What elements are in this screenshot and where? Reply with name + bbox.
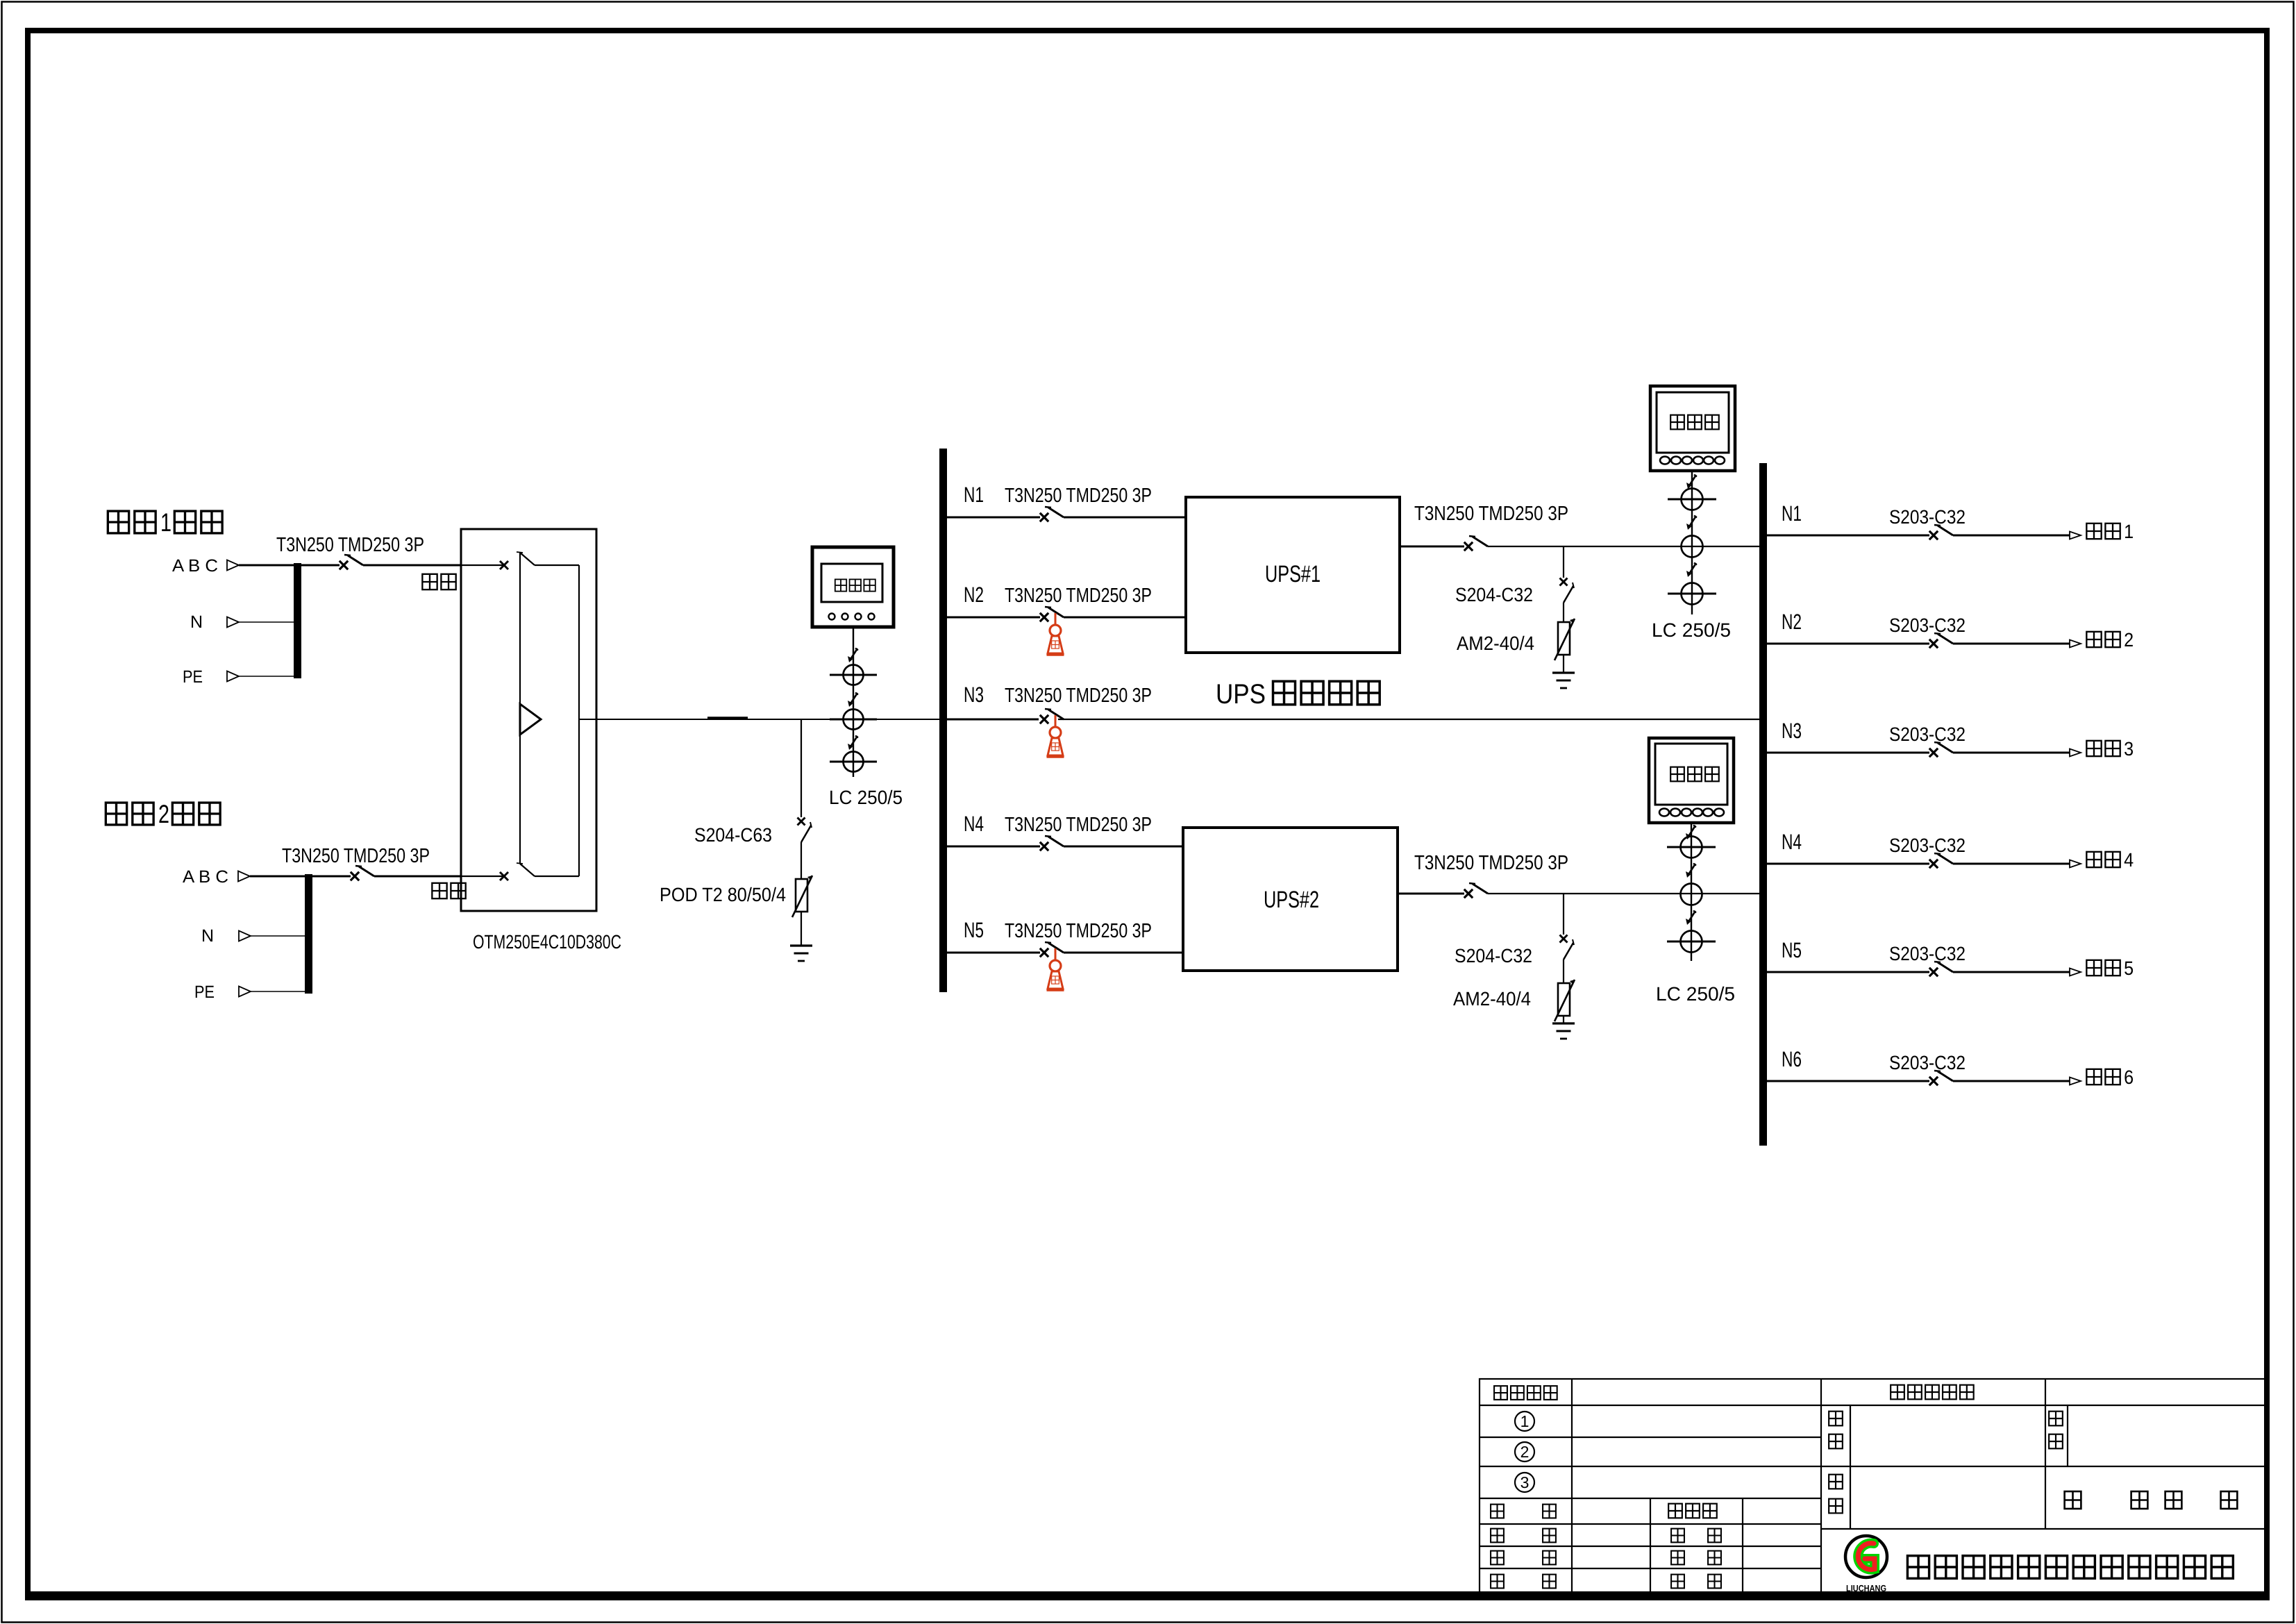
svg-text:UPS#2: UPS#2	[1264, 887, 1319, 913]
wire UPS#1 output	[1400, 546, 1464, 548]
breaker S204-C63	[798, 818, 805, 826]
wire circuit N5 from bus B2	[1767, 971, 1929, 973]
svg-text:S203-C32: S203-C32	[1889, 943, 1966, 964]
wire N2in	[251, 935, 305, 937]
CT LC 250/5 phase A (left)	[844, 665, 864, 685]
label 编码	[1829, 1475, 1843, 1489]
bolt mark m2b	[1689, 516, 1696, 528]
svg-text:N3: N3	[964, 683, 984, 707]
label circled 3	[1515, 1473, 1534, 1492]
CT LC 250/5 phase C (left)	[844, 752, 864, 772]
wire SPD3 drop	[1563, 894, 1564, 935]
svg-text:T3N250 TMD250 3P: T3N250 TMD250 3P	[1005, 585, 1152, 607]
arrow output N4	[2070, 860, 2081, 868]
surge arrester AM2-40/4 (upper)	[1558, 622, 1570, 655]
wire meter P2 drop	[1691, 471, 1693, 614]
bolt mark m3a	[1688, 826, 1695, 837]
svg-text:LC 250/5: LC 250/5	[1656, 983, 1735, 1005]
CT LC 250/5 A (upper right)	[1682, 489, 1703, 510]
wire branch N4 from bus B1	[947, 846, 1040, 848]
wire circuit N2 from bus B2	[1767, 643, 1929, 645]
bolt mark m3c	[1688, 911, 1695, 923]
breaker N3 bypass	[1040, 715, 1048, 723]
padlock seal on breaker N2	[1055, 613, 1057, 625]
junction dash on main line	[707, 717, 748, 720]
bolt mark m1a	[850, 648, 857, 660]
wire SPD3 mid	[1563, 960, 1564, 983]
ATS U1 normal-side switch 常用	[461, 564, 504, 566]
label 回路1	[2086, 524, 2101, 539]
svg-text:LC 250/5: LC 250/5	[1652, 619, 1731, 641]
svg-text:1: 1	[160, 508, 171, 537]
svg-text:AM2-40/4: AM2-40/4	[1457, 633, 1534, 654]
label 第 张 共 张	[2065, 1491, 2081, 1509]
wire UPS#2 output	[1398, 893, 1464, 895]
ATS U1 standby-side switch 备用	[461, 876, 504, 877]
wire circuit N6 to load	[1953, 1080, 2070, 1082]
wire SPD1 drop	[801, 719, 802, 817]
svg-text:N6: N6	[1782, 1047, 1802, 1071]
label 标准化	[1668, 1504, 1682, 1518]
breaker S204-C32 (upper)	[1560, 578, 1568, 586]
UPS U2 box UPS#1	[1186, 497, 1400, 653]
svg-text:S203-C32: S203-C32	[1889, 506, 1966, 528]
svg-text:S203-C32: S203-C32	[1889, 723, 1966, 745]
svg-text:OTM250E4C10D380C: OTM250E4C10D380C	[473, 931, 621, 953]
wire PE1in	[239, 676, 294, 677]
wire UPS#1 output to bus B2	[1488, 546, 1759, 547]
svg-text:N2: N2	[964, 583, 984, 607]
label 回路3	[2086, 741, 2101, 756]
label 批准	[1671, 1551, 1684, 1565]
busbar B1 (UPS input bus)	[939, 449, 947, 992]
svg-text:T3N250 TMD250 3P: T3N250 TMD250 3P	[1414, 503, 1568, 525]
CT LC 250/5 B (upper right)	[1682, 536, 1703, 558]
breaker S204-C32 (lower)	[1560, 935, 1568, 943]
arrow output N6	[2070, 1078, 2081, 1085]
label 数量	[2049, 1412, 2063, 1426]
wire branch N2 from bus B1	[947, 617, 1040, 619]
wire ABC2 to busbar	[250, 876, 351, 878]
label 设计	[1491, 1505, 1504, 1518]
meter P2 电量仪 box	[1650, 386, 1735, 471]
label 制图	[1491, 1529, 1504, 1543]
node 市电1接入 label	[108, 511, 128, 533]
wire branch N3 from bus B1	[947, 719, 1039, 721]
svg-text:2: 2	[2124, 629, 2134, 651]
svg-text:S203-C32: S203-C32	[1889, 614, 1966, 636]
ATS U1 box	[461, 529, 596, 911]
label 项目名称	[1494, 1386, 1507, 1400]
breaker QF2	[351, 872, 359, 880]
meter P1 电量仪 box	[812, 547, 894, 627]
busbar stub source 1	[294, 563, 301, 678]
busbar stub source 2	[305, 874, 312, 994]
CT LC 250/5 C (lower right)	[1681, 931, 1702, 953]
wire N1in	[239, 621, 294, 623]
svg-text:5: 5	[2124, 957, 2134, 979]
wire circuit N3 from bus B2	[1767, 752, 1929, 754]
svg-text:A B C: A B C	[183, 867, 228, 887]
svg-text:PE: PE	[194, 982, 215, 1002]
svg-text:3: 3	[1520, 1473, 1530, 1491]
CT LC 250/5 C (upper right)	[1682, 583, 1703, 605]
svg-text:2: 2	[158, 800, 169, 828]
label 石家庄流畅电子科技有限公司	[1907, 1556, 1929, 1579]
svg-text:N5: N5	[1782, 938, 1802, 962]
wire circuit N1 to load	[1953, 535, 2070, 537]
svg-text:PE: PE	[183, 667, 203, 687]
label 名称	[1829, 1412, 1843, 1426]
surge arrester POD T2 80/50/4	[796, 879, 807, 912]
bolt mark m2a	[1689, 475, 1696, 487]
wire SPD2 to ground	[1563, 655, 1564, 673]
arrow output N3	[2070, 749, 2081, 757]
svg-text:4: 4	[2124, 849, 2134, 871]
wire meter P3 drop	[1691, 823, 1692, 961]
label 回路4	[2086, 852, 2101, 867]
svg-text:1: 1	[1520, 1412, 1530, 1430]
label circled 2	[1515, 1442, 1534, 1462]
label 备用	[432, 883, 446, 898]
ATS U1 common conductor	[519, 553, 521, 864]
svg-text:POD T2 80/50/4: POD T2 80/50/4	[660, 884, 786, 905]
wire ABC1 to busbar	[239, 564, 340, 567]
svg-text:1: 1	[2124, 521, 2134, 542]
label 工艺	[1491, 1575, 1504, 1589]
arrow output N5	[2070, 969, 2081, 976]
svg-text:2: 2	[1520, 1443, 1530, 1461]
CT LC 250/5 phase B (left)	[844, 710, 864, 730]
arrow output N2	[2070, 640, 2081, 648]
wire circuit N1 from bus B2	[1767, 535, 1929, 537]
ground GND3	[1552, 1022, 1575, 1024]
wire branch N5 from bus B1	[947, 952, 1040, 954]
wire SPD2 drop	[1563, 546, 1564, 578]
wire SPD2 mid	[1563, 603, 1564, 622]
wire circuit N4 from bus B2	[1767, 863, 1929, 865]
svg-text:AM2-40/4: AM2-40/4	[1453, 988, 1531, 1010]
CT LC 250/5 B (lower right)	[1681, 884, 1702, 905]
wire QF2 to ATS	[374, 876, 461, 878]
svg-text:T3N250 TMD250 3P: T3N250 TMD250 3P	[1005, 685, 1152, 707]
CT LC 250/5 A (lower right)	[1681, 837, 1702, 858]
svg-text:N3: N3	[1782, 719, 1802, 743]
svg-text:T3N250 TMD250 3P: T3N250 TMD250 3P	[1005, 485, 1152, 507]
svg-text:S204-C63: S204-C63	[694, 824, 772, 846]
wire UPS#2 output to bus B2	[1488, 893, 1759, 894]
svg-text:6: 6	[2124, 1066, 2134, 1088]
wire circuit N5 to load	[1953, 971, 2070, 973]
svg-text:N5: N5	[964, 918, 984, 942]
wire circuit N3 to load	[1953, 752, 2070, 754]
svg-text:UPS#1: UPS#1	[1265, 561, 1321, 587]
bolt mark m2c	[1689, 563, 1696, 575]
svg-text:T3N250 TMD250 3P: T3N250 TMD250 3P	[282, 845, 430, 867]
svg-text:N: N	[201, 926, 214, 946]
bolt mark m3b	[1688, 864, 1695, 876]
wire SPD1 mid	[801, 842, 802, 879]
wire SPD1 to ground	[801, 912, 802, 946]
wire meter P1 drop	[853, 627, 854, 777]
svg-text:3: 3	[2124, 738, 2134, 760]
wire branch N4 to UPS	[1064, 846, 1183, 848]
svg-text:N: N	[190, 612, 203, 632]
padlock seal on breaker N5	[1055, 948, 1057, 960]
wire circuit N4 to load	[1953, 863, 2070, 865]
wire QF1 to ATS	[363, 564, 461, 567]
ATS U1 motor triangle	[520, 704, 541, 735]
svg-text:N2: N2	[1782, 610, 1802, 634]
label 配电柜尺寸	[1891, 1385, 1904, 1400]
label 校核	[1491, 1551, 1504, 1565]
wire branch N2 to UPS	[1064, 617, 1186, 619]
breaker QF1	[340, 561, 348, 569]
wire branch N1 to UPS	[1064, 517, 1186, 519]
svg-text:T3N250 TMD250 3P: T3N250 TMD250 3P	[1005, 920, 1152, 942]
svg-text:T3N250 TMD250 3P: T3N250 TMD250 3P	[276, 534, 424, 556]
node 市电2接入 label	[106, 803, 126, 825]
label 回路6	[2086, 1069, 2101, 1085]
svg-text:A B C: A B C	[172, 556, 218, 576]
svg-text:N1: N1	[1782, 501, 1802, 526]
label 回路5	[2086, 960, 2101, 976]
ground GND2	[1552, 671, 1575, 673]
wire main bypass segment	[1058, 719, 1759, 720]
svg-text:UPS: UPS	[1216, 679, 1266, 710]
svg-text:LIUCHANG: LIUCHANG	[1846, 1583, 1886, 1593]
label circled 1	[1515, 1412, 1534, 1431]
arrow output N1	[2070, 532, 2081, 539]
svg-text:LC 250/5: LC 250/5	[829, 787, 903, 808]
surge arrester AM2-40/4 (lower)	[1558, 983, 1570, 1016]
wire branch N5 to UPS	[1064, 952, 1183, 954]
label 回路2	[2086, 632, 2101, 647]
UPS U3 box UPS#2	[1183, 828, 1398, 971]
wire branch N1 from bus B1	[947, 517, 1040, 519]
svg-text:N4: N4	[1782, 830, 1802, 854]
logo LIUCHANG emblem	[1845, 1536, 1887, 1577]
meter P3 电量仪 box	[1649, 738, 1734, 823]
bolt mark m1b	[850, 693, 857, 705]
svg-text:T3N250 TMD250 3P: T3N250 TMD250 3P	[1005, 814, 1152, 836]
label 日期	[1671, 1575, 1684, 1589]
padlock seal on breaker N3	[1055, 715, 1057, 727]
title block grid	[1480, 1379, 2267, 1594]
svg-text:T3N250 TMD250 3P: T3N250 TMD250 3P	[1414, 852, 1568, 874]
svg-text:N4: N4	[964, 812, 984, 836]
ground GND1	[790, 944, 812, 946]
svg-text:S204-C32: S204-C32	[1455, 584, 1533, 605]
svg-text:S204-C32: S204-C32	[1455, 945, 1532, 966]
label 审定	[1671, 1529, 1684, 1543]
wire PE2in	[251, 991, 305, 992]
svg-text:N1: N1	[964, 483, 984, 507]
busbar B2 (output bus)	[1759, 463, 1767, 1146]
wire circuit N6 from bus B2	[1767, 1080, 1929, 1082]
wire SPD3 to ground	[1563, 1016, 1564, 1023]
label 常用	[422, 574, 437, 589]
wire circuit N2 to load	[1953, 643, 2070, 645]
svg-text:S203-C32: S203-C32	[1889, 1052, 1966, 1073]
bolt mark m1c	[850, 736, 857, 748]
svg-text:S203-C32: S203-C32	[1889, 835, 1966, 856]
wire main ATS output	[579, 719, 939, 720]
